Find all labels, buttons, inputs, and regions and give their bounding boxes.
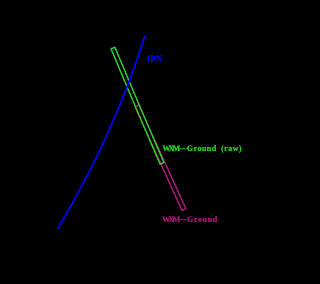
- WXM-Ground error annulus (magenta, two parallel arcs joined at tips): [135, 105, 186, 210]
- label WXM-Ground (raw): [162, 144, 242, 153]
- label WXM-Ground: [162, 215, 218, 224]
- IPN annulus arc (blue curve): [58, 36, 145, 229]
- label IPN: [147, 54, 163, 64]
- WXM-Ground (raw) error annulus (green, two parallel arcs joined at tips): [111, 47, 164, 164]
